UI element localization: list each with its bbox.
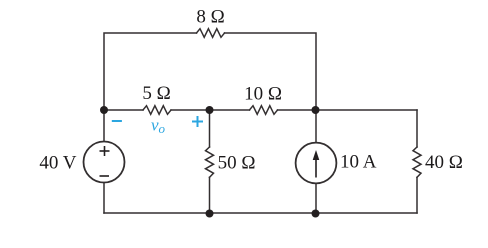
wire right branch lower	[416, 177, 418, 213]
wire top: left vertical + top horizontal left of R 8ohm	[104, 33, 197, 142]
svg-text:vo: vo	[151, 116, 166, 137]
wire 50ohm branch upper	[209, 110, 211, 147]
wire middle between 5ohm and 10ohm	[171, 109, 250, 111]
resistor 5ohm zigzag	[143, 106, 171, 115]
resistor 10ohm zigzag	[250, 106, 278, 115]
wire right branch upper	[416, 110, 418, 147]
voltage source plus sign	[100, 146, 110, 156]
resistor 40ohm zigzag	[413, 147, 421, 177]
node dot right middle	[312, 106, 320, 114]
resistor 8ohm zigzag	[197, 29, 225, 38]
wire bottom	[104, 212, 417, 214]
wire middle right segment to right branch	[278, 109, 418, 111]
node dot right bottom	[312, 210, 320, 218]
wire current source branch upper	[315, 110, 317, 143]
resistor 50ohm zigzag	[206, 147, 214, 177]
label vo minus polarity	[112, 120, 122, 122]
wire middle left segment	[104, 109, 143, 111]
svg-text:40 Ω: 40 Ω	[425, 152, 463, 173]
voltage source minus sign	[100, 175, 110, 177]
wire 50ohm branch lower	[209, 177, 211, 213]
svg-text:5 Ω: 5 Ω	[142, 83, 170, 104]
node dot center bottom	[206, 210, 214, 218]
label vo plus polarity	[192, 116, 203, 127]
node dot center middle	[206, 106, 214, 114]
current source I1 circle	[296, 143, 337, 184]
svg-text:40 V: 40 V	[39, 153, 76, 174]
node dot left middle	[100, 106, 108, 114]
svg-text:10 A: 10 A	[340, 152, 377, 173]
svg-text:10 Ω: 10 Ω	[244, 84, 282, 105]
voltage source V1 circle	[84, 142, 125, 183]
wire top right + right drop to middle node	[225, 33, 317, 110]
wire left branch lower (below voltage source)	[103, 183, 105, 214]
svg-text:50 Ω: 50 Ω	[218, 153, 256, 174]
svg-text:8 Ω: 8 Ω	[196, 7, 224, 28]
wire current source branch lower	[315, 183, 317, 213]
current source arrow	[315, 158, 317, 178]
